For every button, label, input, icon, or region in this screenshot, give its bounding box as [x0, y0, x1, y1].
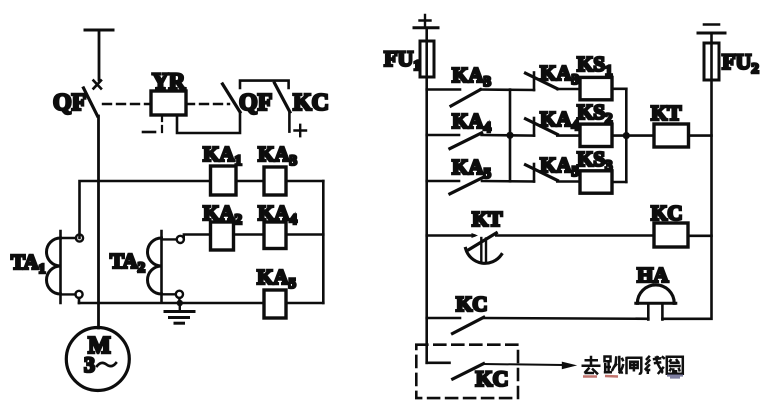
relay KS1 [577, 52, 613, 100]
wire row2 a [482, 134, 534, 137]
svg-text:TA1: TA1 [11, 250, 46, 277]
relay KC [651, 201, 688, 247]
svg-text:TA2: TA2 [110, 249, 145, 276]
svg-text:QF: QF [239, 90, 272, 116]
wire row4 [496, 234, 654, 237]
node plus [295, 125, 307, 136]
wire right supply bus [662, 43, 711, 319]
node right junction [623, 132, 630, 139]
wire row3 a [482, 180, 534, 183]
svg-text:KA4: KA4 [540, 107, 580, 134]
char zha [627, 357, 642, 375]
svg-text:KA5: KA5 [540, 153, 579, 180]
wire row1 c [612, 88, 626, 91]
fuse FU1 [384, 28, 434, 77]
contact KA3 a [427, 63, 491, 106]
wire row1 right [286, 180, 323, 183]
wire right bus [625, 89, 628, 182]
wire row2 mid [234, 233, 265, 236]
wire row2 right [286, 233, 323, 236]
wire into test box [427, 361, 450, 364]
contact KA3 b [526, 61, 580, 90]
wire feeder upper [98, 30, 101, 80]
wire row3 b [557, 180, 580, 183]
busbar [85, 29, 113, 32]
wire row1 mid [236, 180, 264, 183]
svg-text:KC: KC [476, 366, 509, 391]
relay KS2 [577, 100, 613, 147]
relay KA4 [258, 201, 298, 249]
fuse FU2 [704, 33, 759, 80]
char xian [645, 356, 665, 374]
wire row1 a [481, 88, 535, 91]
node minus [143, 115, 162, 134]
breaker QF [53, 81, 101, 117]
svg-text:KS1: KS1 [577, 52, 613, 79]
svg-text:KS2: KS2 [577, 100, 613, 127]
wire left bus [425, 77, 428, 363]
wire right vertical [322, 181, 325, 303]
relay KA3 [258, 142, 297, 195]
wire row2 b [557, 134, 580, 137]
arrow head [562, 362, 577, 370]
transformer TA2 [110, 231, 184, 301]
dashed test box [416, 345, 518, 398]
transformer TA1 [11, 231, 83, 303]
wire row1 b [557, 88, 580, 91]
contact KA5 a [427, 155, 491, 194]
node plus supply [414, 15, 438, 28]
relay KA2 [203, 201, 242, 250]
mechanical link dashed [103, 103, 229, 105]
wire mid bus [509, 90, 512, 182]
label to trip coil (drawn hanzi) [582, 356, 684, 378]
contact KA4 a [427, 109, 492, 149]
svg-text:HA: HA [637, 263, 669, 287]
wire row4 right [688, 235, 712, 238]
wire YR loop [177, 112, 240, 133]
contact KA4 b [526, 107, 580, 136]
wire row5 [484, 317, 649, 320]
wire row3 [79, 298, 323, 303]
svg-text:FU1: FU1 [384, 46, 421, 74]
svg-text:KC: KC [651, 201, 683, 225]
char qu [582, 356, 601, 375]
relay KA1 [203, 142, 242, 195]
trip coil YR [151, 69, 186, 115]
wire top bracket [240, 81, 289, 88]
svg-text:3: 3 [84, 352, 95, 377]
ground [165, 303, 194, 323]
wire feeder lower [97, 116, 100, 328]
svg-text:QF: QF [53, 90, 86, 116]
relay KT [651, 101, 689, 147]
char quan [667, 357, 683, 374]
wire row3 c [612, 181, 626, 184]
scan tint marks [583, 375, 618, 378]
contact QF auxiliary [223, 84, 273, 116]
svg-text:KA3: KA3 [258, 142, 297, 169]
svg-text:KT: KT [651, 101, 681, 125]
contact KC signal [427, 292, 488, 334]
wire TA2 to row2 [184, 235, 211, 239]
relay KA5 [257, 265, 296, 318]
node minus supply [698, 25, 725, 34]
contact KT delayed [427, 207, 503, 263]
contact KA5 b [526, 153, 580, 182]
wire TA2 bottom [178, 298, 180, 303]
bell HA [636, 263, 676, 320]
wire KT feed [626, 134, 654, 137]
svg-text:KA1: KA1 [203, 142, 242, 169]
svg-text:KA4: KA4 [258, 201, 298, 228]
wire row1 left [80, 181, 211, 238]
svg-text:KA3: KA3 [452, 63, 491, 90]
svg-text:KC: KC [293, 90, 329, 116]
svg-text:KA4: KA4 [452, 109, 492, 136]
svg-text:KA5: KA5 [452, 155, 491, 182]
wire KT to FU2 [689, 134, 712, 137]
motor M [66, 328, 129, 391]
svg-text:KS3: KS3 [577, 147, 613, 174]
contact KC auxiliary [275, 83, 330, 132]
char tiao [604, 356, 624, 374]
svg-text:KC: KC [456, 292, 488, 316]
wire row2 c [612, 134, 626, 137]
svg-text:FU2: FU2 [722, 49, 759, 77]
node mid junction [506, 132, 513, 139]
svg-text:KA2: KA2 [203, 201, 242, 228]
svg-text:KA5: KA5 [257, 265, 296, 292]
svg-text:YR: YR [152, 69, 186, 94]
svg-text:KT: KT [472, 207, 502, 231]
relay KS3 [577, 147, 613, 193]
node junction [177, 300, 183, 306]
wire to arrow [484, 364, 563, 365]
svg-text:KA3: KA3 [540, 61, 579, 88]
contact KC trip [453, 364, 509, 391]
